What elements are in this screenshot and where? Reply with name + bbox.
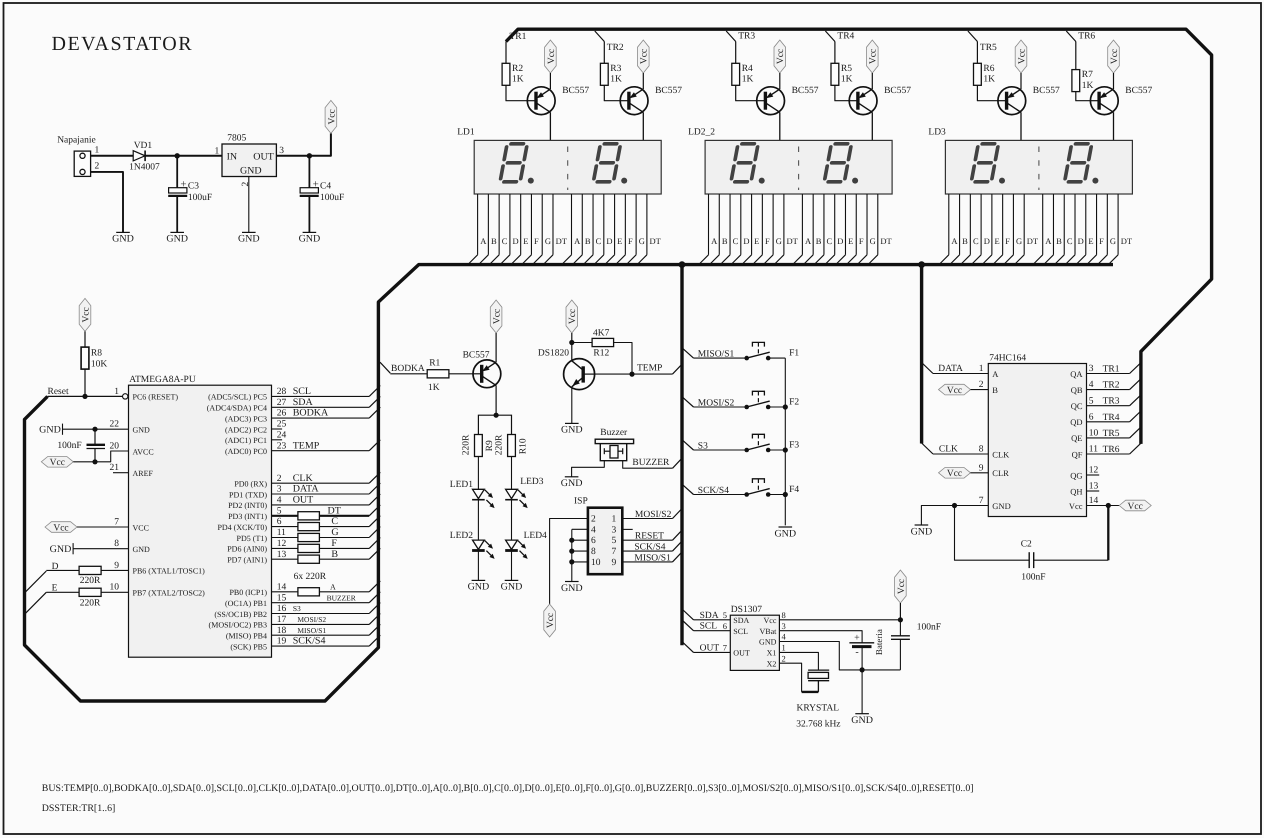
svg-text:3: 3	[279, 146, 284, 156]
svg-text:BC557: BC557	[884, 86, 911, 96]
bus main loop	[25, 265, 1114, 701]
Vcc flag hc164 supply	[1119, 500, 1151, 512]
svg-text:PD7 (AIN1): PD7 (AIN1)	[227, 556, 267, 565]
svg-text:LD3: LD3	[928, 127, 946, 137]
net DATA wire hc164	[922, 363, 989, 375]
svg-text:SCL: SCL	[293, 386, 311, 397]
svg-text:GND: GND	[468, 582, 490, 593]
svg-text:QA: QA	[1070, 369, 1083, 379]
svg-text:Vcc: Vcc	[546, 613, 556, 628]
svg-text:(SCK) PB5: (SCK) PB5	[230, 642, 267, 651]
svg-text:A: A	[480, 236, 487, 246]
svg-text:BC557: BC557	[1125, 86, 1152, 96]
resistor R8 10K	[81, 347, 107, 370]
svg-text:DT: DT	[786, 236, 798, 246]
bus TR nets top	[506, 29, 1212, 444]
svg-text:SDA: SDA	[733, 616, 749, 625]
svg-text:PB6 (XTAL1/TOSC1): PB6 (XTAL1/TOSC1)	[133, 567, 206, 576]
svg-text:BUS:TEMP[0..0],BODKA[0..0],SDA: BUS:TEMP[0..0],BODKA[0..0],SDA[0..0],SCL…	[42, 783, 974, 794]
svg-text:TR5: TR5	[1103, 429, 1120, 439]
svg-text:BC557: BC557	[463, 350, 490, 360]
svg-text:D: D	[1078, 236, 1084, 246]
svg-text:3: 3	[782, 621, 786, 631]
svg-text:G: G	[545, 236, 551, 246]
net CLK wire	[272, 482, 370, 484]
junction battery gnd	[860, 667, 865, 672]
svg-text:2: 2	[95, 162, 100, 172]
net TR3 wire hc164 out	[1087, 395, 1141, 407]
svg-text:SCL: SCL	[700, 622, 718, 632]
svg-text:GND: GND	[561, 583, 583, 594]
crystal Y1 KRYSTAL	[779, 652, 840, 729]
svg-text:PD1 (TXD): PD1 (TXD)	[229, 490, 267, 499]
svg-text:C3: C3	[188, 181, 199, 191]
net TR2 wire hc164 out	[1087, 379, 1141, 391]
svg-text:Bateria: Bateria	[874, 629, 884, 655]
transistor Q5 BC557	[998, 86, 1060, 114]
svg-text:TR3: TR3	[738, 32, 755, 42]
wire buzzer left to gnd	[572, 461, 605, 477]
Vcc flag reset pullup	[79, 298, 91, 331]
svg-text:TR1: TR1	[510, 32, 527, 42]
svg-text:E: E	[523, 236, 528, 246]
pins LD2_2 segment leads	[699, 194, 893, 265]
wire gnd pin7	[921, 506, 988, 526]
svg-text:DT: DT	[328, 505, 341, 516]
ground DS1820	[561, 423, 583, 435]
svg-text:26: 26	[277, 409, 287, 419]
net F wire with resistor	[272, 547, 298, 549]
svg-text:C: C	[733, 236, 739, 246]
resistor R9 220R	[462, 434, 495, 457]
svg-text:G: G	[1016, 236, 1022, 246]
resistor R2 1K	[502, 63, 524, 85]
wire vcc to CLR	[971, 472, 989, 474]
pin1 inversion circle	[123, 394, 128, 399]
svg-text:OUT: OUT	[293, 495, 314, 506]
svg-text:100nF: 100nF	[57, 441, 81, 451]
wire net TR2 from bus	[595, 31, 605, 42]
svg-text:2: 2	[782, 653, 786, 663]
svg-text:10: 10	[110, 583, 120, 593]
svg-text:DS1307: DS1307	[731, 605, 762, 615]
svg-text:Vcc: Vcc	[640, 49, 650, 64]
resistor 220R net E	[79, 588, 101, 608]
svg-text:MISO/S1: MISO/S1	[698, 350, 735, 360]
stub pin21 AREF	[113, 472, 129, 474]
led LED4	[505, 531, 547, 559]
svg-text:4: 4	[1089, 380, 1094, 390]
svg-text:1: 1	[114, 387, 119, 397]
transistor Q1 BC557	[527, 86, 589, 114]
svg-text:GND: GND	[112, 234, 134, 245]
svg-text:C: C	[596, 236, 602, 246]
junction node at C4	[307, 153, 312, 158]
svg-text:G: G	[331, 527, 338, 538]
led LED1	[450, 480, 495, 508]
svg-text:E: E	[994, 236, 999, 246]
net MISO/S1 wire switch	[682, 348, 747, 360]
net S3 wire	[272, 613, 370, 615]
net SCL wire	[272, 395, 370, 397]
ground for 7805	[238, 232, 260, 244]
junction isp gnd pins	[569, 538, 574, 543]
wire R3 to base	[604, 85, 620, 100]
net TR1 wire hc164 out	[1087, 363, 1141, 375]
svg-text:D: D	[606, 236, 612, 246]
net A wire with resistor	[272, 591, 298, 593]
svg-text:GND: GND	[501, 582, 523, 593]
net E wire with stub	[26, 584, 80, 614]
svg-text:TEMP: TEMP	[293, 440, 320, 451]
svg-text:21: 21	[110, 463, 120, 473]
svg-text:DT: DT	[880, 236, 892, 246]
resistor 220R net D	[79, 566, 101, 586]
ground ISP	[561, 582, 583, 594]
svg-text:7: 7	[612, 547, 617, 557]
svg-text:D: D	[837, 236, 843, 246]
svg-text:TEMP: TEMP	[637, 364, 662, 374]
switch F2	[744, 391, 799, 409]
svg-text:TR3: TR3	[1103, 397, 1120, 407]
svg-text:C: C	[827, 236, 833, 246]
junction node at C3	[175, 153, 180, 158]
wire net TR5 from bus	[968, 31, 978, 42]
resistor R12 4K7	[592, 328, 614, 358]
svg-text:4K7: 4K7	[593, 328, 610, 338]
net TR4 wire hc164 out	[1087, 411, 1141, 423]
svg-text:(ADC0) PC0: (ADC0) PC0	[225, 447, 267, 456]
svg-text:DT: DT	[1027, 236, 1039, 246]
svg-text:23: 23	[277, 441, 287, 451]
svg-text:BUZZER: BUZZER	[632, 458, 670, 468]
svg-text:SCL: SCL	[733, 627, 748, 636]
wire F1 to common	[768, 357, 785, 359]
svg-text:Vcc: Vcc	[764, 616, 777, 625]
svg-text:Vcc: Vcc	[493, 309, 503, 324]
svg-text:GND: GND	[240, 165, 262, 176]
svg-text:74HC164: 74HC164	[989, 353, 1026, 363]
wire rtc gnd pin4	[779, 642, 900, 670]
svg-text:GND: GND	[299, 234, 321, 245]
svg-text:GND: GND	[851, 715, 873, 726]
svg-text:13: 13	[277, 550, 287, 560]
svg-text:B: B	[491, 236, 497, 246]
wire vcc to avcc pin20	[73, 451, 128, 462]
resistor R7 1K	[1072, 70, 1094, 92]
svg-text:27: 27	[277, 398, 287, 408]
svg-text:Vcc: Vcc	[547, 49, 557, 64]
svg-text:TR2: TR2	[1103, 381, 1120, 391]
net BUZZER wire	[272, 602, 370, 604]
svg-text:22: 22	[110, 420, 120, 430]
Vcc flag rtc	[895, 570, 907, 603]
svg-text:100nF: 100nF	[1021, 572, 1045, 582]
svg-text:QE: QE	[1071, 433, 1082, 443]
wire R7 to base	[1076, 92, 1091, 101]
svg-text:TR6: TR6	[1078, 32, 1095, 42]
wire F4 to common	[768, 494, 785, 496]
svg-text:PB7 (XTAL2/TOSC2): PB7 (XTAL2/TOSC2)	[133, 588, 206, 597]
svg-text:(ADC3) PC3: (ADC3) PC3	[225, 414, 267, 423]
svg-text:5: 5	[1089, 396, 1094, 406]
svg-text:Vcc: Vcc	[327, 109, 337, 124]
svg-text:IN: IN	[227, 151, 238, 162]
svg-text:-: -	[855, 647, 858, 658]
svg-text:GND: GND	[39, 425, 61, 436]
svg-text:11: 11	[1089, 445, 1098, 455]
resistor R6 1K	[974, 63, 996, 85]
mcu pin names right	[207, 387, 287, 651]
Vcc flag TR2	[638, 40, 650, 73]
svg-text:E: E	[754, 236, 759, 246]
connector ISP	[574, 497, 622, 575]
svg-text:220R: 220R	[80, 576, 101, 586]
svg-text:E: E	[1088, 236, 1093, 246]
svg-text:(SS/OC1B) PB2: (SS/OC1B) PB2	[214, 610, 267, 619]
resistor R3 1K	[600, 63, 622, 85]
svg-text:DATA: DATA	[938, 364, 963, 374]
svg-text:1: 1	[979, 364, 984, 374]
svg-text:R5: R5	[841, 64, 852, 74]
svg-text:4: 4	[277, 496, 282, 506]
svg-text:1: 1	[214, 146, 219, 156]
Vcc flag TR1	[545, 40, 557, 73]
svg-text:24: 24	[277, 430, 287, 440]
svg-text:Vcc: Vcc	[568, 309, 578, 324]
svg-text:R6: R6	[983, 64, 994, 74]
led LED2	[450, 531, 495, 559]
switch F3	[744, 434, 799, 452]
svg-text:CLK: CLK	[992, 449, 1010, 459]
Vcc flag TR6	[1108, 40, 1120, 73]
svg-text:(ADC1) PC1: (ADC1) PC1	[225, 436, 267, 445]
svg-text:GND: GND	[561, 478, 583, 489]
svg-text:B: B	[816, 236, 822, 246]
svg-text:220R: 220R	[462, 434, 472, 455]
regulator 7805	[214, 134, 284, 187]
svg-text:Vcc: Vcc	[1017, 49, 1027, 64]
Vcc flag ISP	[544, 604, 556, 637]
svg-text:TR5: TR5	[980, 43, 997, 53]
svg-text:C: C	[331, 516, 338, 527]
svg-text:6x 220R: 6x 220R	[294, 572, 327, 582]
svg-text:PB0 (ICP1): PB0 (ICP1)	[229, 588, 267, 597]
wire R9 to LED1	[477, 457, 479, 490]
svg-text:DATA: DATA	[293, 484, 320, 495]
svg-text:MOSI/S2: MOSI/S2	[635, 510, 672, 520]
net C wire with resistor	[272, 526, 298, 528]
svg-text:GND: GND	[133, 545, 151, 554]
mcu pin names left	[110, 387, 206, 598]
net OUT wire	[272, 504, 370, 506]
svg-text:AVCC: AVCC	[133, 447, 154, 456]
Vcc flag hc164 CLR	[939, 468, 971, 480]
ground LED4	[501, 580, 523, 592]
svg-text:D: D	[743, 236, 749, 246]
bus branch 74HC164	[920, 265, 923, 444]
svg-text:CLK: CLK	[293, 473, 314, 484]
svg-text:GND: GND	[911, 526, 933, 537]
Vcc flag TR3	[774, 40, 786, 73]
svg-text:DEVASTATOR: DEVASTATOR	[52, 33, 194, 55]
svg-text:GND: GND	[561, 425, 583, 436]
net SCL wire rtc	[682, 620, 730, 632]
svg-text:100uF: 100uF	[188, 193, 212, 203]
junction reset	[82, 394, 87, 399]
Vcc flag bodka transistor	[490, 300, 502, 333]
svg-text:A: A	[711, 236, 718, 246]
svg-text:Vcc: Vcc	[1069, 501, 1083, 511]
svg-text:7805: 7805	[227, 134, 246, 144]
svg-text:F: F	[859, 236, 864, 246]
wire Vcc to emitter	[642, 73, 644, 89]
svg-text:ISP: ISP	[574, 497, 588, 507]
svg-text:9: 9	[114, 561, 119, 571]
svg-text:PC6 (RESET): PC6 (RESET)	[133, 393, 179, 402]
svg-text:LED3: LED3	[520, 477, 543, 487]
wire 7805 GND pin to ground	[248, 177, 250, 233]
svg-text:TR2: TR2	[607, 43, 624, 53]
junction split	[494, 413, 499, 418]
mcu U1 ATMEGA8A-PU	[129, 375, 272, 657]
svg-text:G: G	[870, 236, 876, 246]
svg-text:BC557: BC557	[562, 86, 589, 96]
svg-text:17: 17	[277, 615, 287, 625]
net CLK wire hc164	[922, 443, 989, 455]
svg-text:DSSTER:TR[1..6]: DSSTER:TR[1..6]	[42, 803, 116, 814]
wire vcc to DS1820	[571, 333, 573, 361]
svg-text:C: C	[1067, 236, 1073, 246]
svg-text:A: A	[574, 236, 581, 246]
wire collector to display	[549, 112, 551, 140]
junction temp pullup	[629, 372, 634, 377]
wire LED1 to LED2	[477, 500, 479, 540]
switch F4	[744, 479, 799, 497]
svg-text:1K: 1K	[983, 75, 995, 85]
svg-text:LED1: LED1	[450, 480, 473, 490]
svg-text:S3: S3	[698, 441, 708, 451]
svg-text:3: 3	[1089, 364, 1094, 374]
svg-text:Vcc: Vcc	[897, 579, 907, 594]
svg-text:R9: R9	[485, 440, 495, 451]
net OUT wire rtc	[682, 642, 730, 654]
svg-text:D: D	[984, 236, 990, 246]
svg-text:Reset: Reset	[48, 387, 69, 397]
wire net TR1 from bus	[506, 29, 518, 41]
svg-text:VD1: VD1	[134, 141, 153, 151]
svg-text:SDA: SDA	[700, 611, 719, 621]
svg-text:2: 2	[277, 474, 282, 484]
svg-text:F: F	[1099, 236, 1104, 246]
net G wire with resistor	[272, 537, 298, 539]
svg-text:R12: R12	[593, 349, 609, 359]
svg-text:MISO/S1: MISO/S1	[634, 553, 671, 563]
wire Vcc to emitter	[549, 73, 551, 89]
net SDA wire	[272, 406, 370, 408]
junction avcc	[92, 459, 97, 464]
svg-text:GND: GND	[774, 528, 796, 539]
svg-text:1K: 1K	[512, 75, 524, 85]
shift register U3 74HC164	[988, 353, 1086, 516]
junction pin14 C2	[1106, 503, 1111, 508]
junction gnd C2	[952, 503, 957, 508]
svg-text:X2: X2	[767, 659, 777, 668]
svg-text:1K: 1K	[1082, 81, 1094, 91]
net TEMP wire middle	[595, 364, 682, 375]
rtc U4 DS1307	[730, 605, 779, 670]
svg-text:(ADC2) PC2: (ADC2) PC2	[225, 425, 267, 434]
svg-text:1: 1	[782, 643, 786, 653]
svg-text:12: 12	[1089, 466, 1099, 476]
svg-text:X1: X1	[767, 649, 777, 658]
svg-text:6: 6	[277, 517, 282, 527]
net SCK/S4 wire	[272, 645, 370, 647]
svg-text:10: 10	[591, 558, 601, 568]
svg-text:DS1820: DS1820	[538, 349, 569, 359]
svg-text:Buzzer: Buzzer	[600, 428, 628, 438]
sensor U2 DS1820	[538, 349, 595, 390]
svg-text:SDA: SDA	[293, 397, 314, 408]
wire net pin1 to diode	[91, 155, 134, 157]
capacitor C3 100uF	[168, 156, 212, 233]
svg-text:1K: 1K	[428, 383, 440, 393]
svg-text:100nF: 100nF	[917, 623, 941, 633]
svg-text:18: 18	[277, 626, 287, 636]
svg-text:A: A	[951, 236, 958, 246]
svg-text:S3: S3	[293, 604, 301, 613]
svg-text:Vcc: Vcc	[947, 386, 962, 396]
svg-text:Napajanie: Napajanie	[57, 135, 96, 145]
wire diode to 7805 IN	[145, 155, 222, 157]
pins LD3 segment leads	[939, 194, 1133, 265]
svg-text:F: F	[331, 538, 337, 549]
svg-text:OUT: OUT	[700, 643, 720, 653]
svg-text:QD: QD	[1070, 417, 1082, 427]
svg-text:F3: F3	[789, 440, 799, 450]
wire Vcc to emitter	[871, 73, 873, 89]
svg-text:13: 13	[1089, 482, 1099, 492]
net BODKA wire	[272, 417, 370, 419]
svg-text:220R: 220R	[495, 434, 505, 455]
svg-text:C: C	[502, 236, 508, 246]
svg-text:14: 14	[1089, 496, 1099, 506]
svg-text:(ADC4/SDA) PC4: (ADC4/SDA) PC4	[207, 404, 267, 413]
net BUZZER wire	[623, 458, 682, 468]
svg-text:PD2 (INT0): PD2 (INT0)	[228, 501, 267, 510]
net B wire with resistor	[272, 558, 298, 560]
wire net TR4 from bus	[825, 31, 835, 42]
svg-text:A: A	[330, 582, 336, 591]
net RESET wire isp	[622, 530, 682, 542]
svg-text:VCC: VCC	[133, 523, 149, 532]
wire R4 to base	[736, 85, 757, 100]
wire Vcc to emitter	[779, 73, 781, 89]
svg-text:G: G	[776, 236, 782, 246]
svg-text:SCK/S4: SCK/S4	[293, 636, 326, 647]
wire switch common	[784, 358, 786, 525]
svg-text:B: B	[1056, 236, 1062, 246]
svg-text:QH: QH	[1070, 486, 1082, 496]
svg-text:R1: R1	[429, 358, 440, 368]
net MISO/S1 wire isp	[622, 552, 682, 564]
svg-text:BODKA: BODKA	[391, 364, 425, 374]
buzzer SG1	[595, 428, 633, 461]
capacitor 100nF avcc	[57, 429, 105, 462]
wire pin2 to ground	[91, 172, 123, 233]
net Reset wire	[48, 387, 123, 397]
svg-text:C: C	[973, 236, 979, 246]
